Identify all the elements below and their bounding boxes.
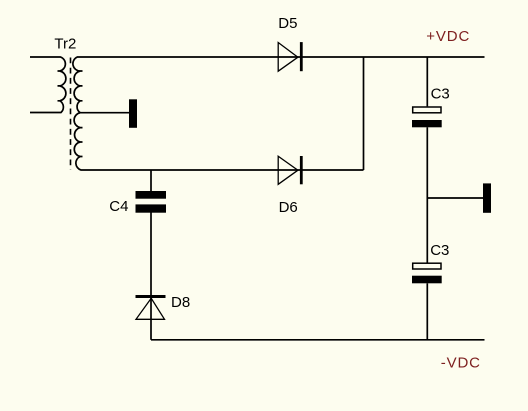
svg-text:D6: D6 [279,199,298,216]
svg-text:+VDC: +VDC [426,28,470,45]
svg-text:-VDC: -VDC [441,355,481,372]
svg-text:C3: C3 [430,242,449,259]
svg-text:C3: C3 [431,86,450,103]
svg-text:Tr2: Tr2 [54,36,76,53]
svg-text:D5: D5 [278,15,297,32]
svg-text:C4: C4 [109,198,128,215]
svg-text:D8: D8 [171,294,190,311]
